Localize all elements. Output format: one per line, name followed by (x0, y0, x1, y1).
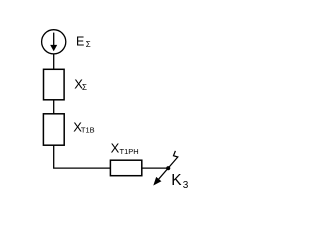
wire: X_T1PH right to fault junction (142, 167, 168, 169)
EMF source E_sigma (circle) (42, 30, 66, 54)
wire: X_sigma bottom to X_T1B top (53, 100, 55, 114)
resistor X_T1B (vertical box) (43, 114, 64, 145)
resistor X_sigma (vertical box) (44, 69, 65, 100)
svg-text:K: K (171, 172, 182, 189)
svg-text:T1PH: T1PH (120, 147, 139, 156)
svg-text:Σ: Σ (86, 40, 91, 49)
resistor X_T1PH (horizontal box) (110, 160, 141, 176)
junction dot at fault point (166, 166, 170, 170)
fault symbol K3: lightning zigzag + arrow through junction (153, 151, 178, 186)
svg-text:E: E (76, 35, 84, 49)
svg-text:3: 3 (183, 180, 189, 191)
svg-text:T1B: T1B (81, 125, 95, 134)
arrow inside EMF source (50, 33, 57, 52)
wire: source bottom to X_sigma top (53, 54, 55, 69)
svg-text:Σ: Σ (82, 83, 87, 92)
wire: X_T1B bottom down then right to X_T1PH (L-shape) (54, 145, 111, 168)
svg-text:X: X (111, 141, 120, 156)
